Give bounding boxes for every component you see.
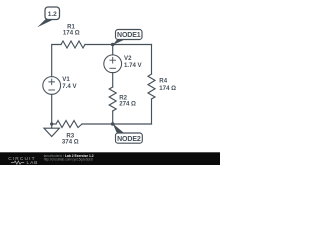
svg-text:NODE1: NODE1	[117, 32, 141, 39]
svg-text:7.4 V: 7.4 V	[62, 83, 77, 90]
node label NODE1	[113, 40, 125, 45]
wire top-left vertical (V1 top to top wire)	[52, 45, 61, 77]
wire R2 to NODE2 junction	[112, 111, 114, 124]
watermark bar	[0, 152, 220, 165]
wire NODE1 junction down to V2	[112, 45, 114, 55]
svg-text:http://circuitlab.com/cye15qde: http://circuitlab.com/cye15qde9pt3l	[44, 157, 93, 161]
resistor R2	[109, 87, 116, 111]
svg-text:1.2: 1.2	[48, 11, 57, 18]
svg-text:174 Ω: 174 Ω	[159, 85, 176, 92]
wire V2 to R2	[112, 73, 114, 87]
wire V1 to ground junction	[51, 94, 53, 124]
svg-text:374 Ω: 374 Ω	[62, 138, 79, 145]
wire R3 to NODE2 junction	[82, 123, 113, 125]
svg-text:LAB: LAB	[27, 160, 39, 165]
svg-text:NODE2: NODE2	[117, 136, 141, 143]
resistor R3	[56, 121, 82, 128]
V1 minus sign	[49, 89, 55, 91]
ground stub	[51, 124, 53, 128]
svg-text:V1: V1	[62, 76, 70, 83]
resistor R1	[61, 41, 85, 48]
node label NODE2	[113, 124, 125, 134]
wire bottom (right rail to NODE2 junction)	[113, 123, 152, 125]
wire top (R1 to right rail)	[85, 44, 152, 46]
node junction dot NODE2	[111, 122, 115, 126]
wire right rail upper	[151, 45, 153, 75]
node junction dot NODE1	[111, 43, 115, 47]
wire ground junction to R3	[52, 123, 56, 125]
wire right rail lower	[151, 99, 153, 124]
voltage source V1	[43, 77, 61, 95]
V2 minus sign	[110, 67, 116, 69]
svg-text:1.74 V: 1.74 V	[124, 62, 143, 69]
voltage source V2	[104, 55, 122, 73]
junction dot ground	[50, 122, 53, 125]
resistor R4	[148, 74, 155, 99]
V1 plus sign	[49, 79, 55, 85]
svg-text:R4: R4	[159, 78, 167, 85]
svg-text:V2: V2	[124, 55, 132, 62]
ground symbol triangle	[44, 128, 59, 136]
V2 plus sign	[110, 57, 116, 63]
annotation callout bubble 1.2	[37, 19, 54, 27]
svg-text:274 Ω: 274 Ω	[119, 101, 136, 108]
svg-text:174 Ω: 174 Ω	[63, 29, 80, 36]
